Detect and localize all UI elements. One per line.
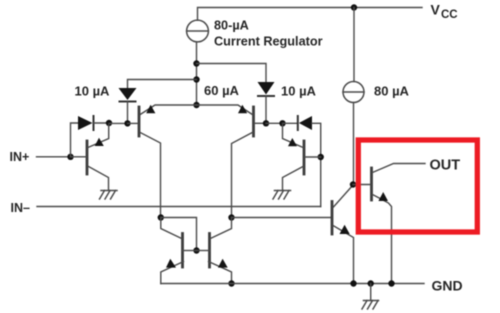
wire Q1 base [71,156,87,158]
wire Q1 emitter [88,125,109,148]
svg-text:IN+: IN+ [10,150,30,164]
wire clamp left riser [71,123,79,157]
svg-text:60 µA: 60 µA [204,83,240,98]
node IN+ base junction [67,154,73,160]
wire Q8 emitter [373,195,392,284]
wire Q4 collector [283,167,304,191]
svg-text:80 µA: 80 µA [374,83,410,98]
wire Q1 collector [89,167,109,191]
wire IN- rail [37,206,321,208]
ground chassis right input [275,190,291,192]
current regulator U1 bar [187,30,209,32]
transistor Q4 base bar [303,141,306,174]
wire regulator output vertical [196,42,198,105]
node gnd A [350,280,356,286]
arrow Q1 emitter [95,138,104,146]
wire Q7 base [232,217,332,219]
node gnd C [388,280,394,286]
wire Vcc rail down to current source [353,8,355,82]
svg-text:Current Regulator: Current Regulator [214,34,323,48]
node bias B [193,76,199,82]
wire GND rail [161,283,424,285]
svg-text:V: V [431,2,441,18]
node IN- base junction [318,154,324,160]
node D1 junction [124,120,130,126]
diode D3 cathode bar [93,116,95,130]
transistor Q1 base bar [86,141,89,174]
wire Q3 emitter [197,105,253,115]
transistor Q5 base bar [181,234,184,268]
wire bias A to diode D2 [197,64,267,83]
svg-text:10 µA: 10 µA [281,83,317,98]
diode D4 clamp right triangle [299,116,312,130]
wire emitter node to D1 node [109,122,128,124]
node Q6 emitter rail junction [228,280,234,286]
wire Q8 base [353,184,371,186]
node bias A [193,60,199,66]
wire Q2 collector [140,133,160,218]
diode D1 10uA left triangle [119,88,137,100]
node mirror base junction [193,247,199,253]
wire IN+ lead [37,156,71,158]
arrow Q5 emitter [166,259,176,268]
wire right emitter node to clamp [283,122,298,124]
node right emitter junction [279,120,285,126]
svg-text:GND: GND [432,277,463,293]
wire Q8 collector to OUT [373,164,426,173]
wire Q5 emitter [161,262,184,284]
current source I1 bar [343,91,364,93]
wire bias B to diode D1 [128,80,197,89]
highlight box around output transistor Q8 [358,140,477,232]
wire Q6 emitter [209,262,232,284]
diode D2 10uA right triangle [258,82,275,95]
node Q8 base junction [350,181,356,187]
node tail 60uA [193,102,199,108]
arrow Q8 emitter [378,192,388,201]
node D2 junction [263,120,269,126]
wire D2 cathode down [265,96,267,123]
wire mirror base routing [161,218,197,251]
wire Q7 collector [333,185,353,207]
arrow Q6 emitter [218,259,228,268]
arrow Q2 emitter [146,105,155,113]
wire Q6 base [197,250,210,252]
arrow Q3 emitter [238,105,247,113]
wire Q5 base [183,250,197,252]
svg-text:IN–: IN– [11,201,31,215]
wire D4 anode riser to IN- [312,123,321,206]
transistor Q7 base bar [331,202,334,235]
wire Q4 base [305,156,321,158]
svg-text:10 µA: 10 µA [75,83,111,98]
ground chassis main [364,300,379,302]
diode D2 cathode bar [258,95,274,97]
transistor Q6 base bar [208,234,211,268]
wire I1 output down [353,103,355,185]
diode D4 cathode bar [297,116,299,130]
svg-text:80-µA: 80-µA [214,18,249,32]
arrow Q7 emitter [340,225,350,234]
diode D3 clamp left triangle [78,116,93,130]
node left emitter junction [106,120,112,126]
arrow Q4 emitter [288,138,297,146]
wire D1 cathode down [127,102,129,124]
transistor Q2 base bar [138,107,141,136]
wire Q2 base [128,122,138,124]
current regulator U1 circle symbol [187,20,209,42]
wire D3 cathode to emitter node [94,122,110,124]
transistor Q8 base bar [370,168,373,200]
wire Q7 emitter [333,226,354,284]
wire Q3 collector [232,133,253,218]
ground chassis left [101,190,117,192]
node gnd B [368,280,374,286]
node mirror right junction [228,214,234,220]
wire Q3 base [255,122,267,124]
wire Q5 collector [161,218,182,239]
wire Q4 emitter [283,125,304,148]
node Vcc rail junction [351,4,357,10]
wire ground stub [370,284,372,301]
current source I1 circle symbol [343,82,364,103]
wire Q6 collector [211,218,232,239]
wire D2 node to right emitter node [266,122,283,124]
transistor Q3 base bar [252,107,255,136]
svg-text:CC: CC [441,9,458,21]
node mirror left junction [158,214,164,220]
wire Q2 emitter [140,105,196,115]
svg-text:OUT: OUT [430,157,461,173]
diode D1 cathode bar [120,101,136,103]
wire Vcc top rail [198,8,423,21]
